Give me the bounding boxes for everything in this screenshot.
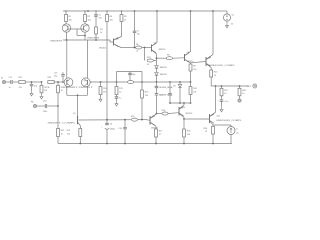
- ground below R22: [40, 94, 43, 99]
- resistor R14 to lower line: [141, 82, 149, 120]
- svg-text:47k: 47k: [44, 90, 47, 92]
- svg-text:Q4: Q4: [66, 80, 68, 82]
- wire Q11 emitter node: [213, 125, 231, 127]
- svg-text:Q5: Q5: [116, 39, 119, 41]
- wire input to left base: [62, 81, 64, 84]
- transistor Q2 mirror right: [81, 24, 89, 32]
- wire output rail: [211, 85, 248, 87]
- svg-text:C14: C14: [43, 101, 46, 103]
- svg-text:100u: 100u: [43, 111, 47, 113]
- svg-text:100: 100: [187, 134, 190, 136]
- svg-text:10p: 10p: [132, 74, 135, 76]
- transistor Q5: [99, 37, 122, 50]
- svg-text:0.1u: 0.1u: [225, 101, 229, 103]
- resistor R1: [65, 11, 73, 24]
- transistor Q1 mirror left: [62, 24, 70, 32]
- svg-text:Q3: Q3: [73, 113, 75, 115]
- svg-text:1m: 1m: [236, 133, 239, 135]
- svg-text:SILVER_MICA: SILVER_MICA: [159, 86, 173, 89]
- svg-text:100: 100: [193, 69, 196, 71]
- node input filter: [31, 81, 43, 83]
- wire Q8 collector up: [190, 11, 192, 52]
- capacitor C10 bottom: [118, 120, 126, 144]
- svg-text:Q2: Q2: [86, 25, 88, 27]
- svg-text:47p: 47p: [99, 18, 103, 20]
- svg-text:IN: IN: [1, 78, 3, 80]
- wire Q9 collector up: [212, 11, 214, 55]
- resistor R13 series feedback: [127, 81, 133, 84]
- wire lower chain down: [57, 106, 59, 129]
- svg-text:R19: R19: [131, 116, 134, 118]
- capacitor C11 input coupling: [9, 77, 19, 89]
- capacitor C9 Q9 emitter: [210, 68, 218, 78]
- wire Q6 emitter node: [156, 54, 158, 63]
- svg-text:R12: R12: [119, 88, 122, 90]
- svg-text:10k: 10k: [145, 95, 148, 97]
- resistor R20 Q3 emitter: [67, 129, 82, 144]
- svg-text:1N4148: 1N4148: [160, 74, 168, 76]
- capacitor C1 top: [94, 11, 103, 27]
- resistor R22 shunt: [40, 82, 47, 94]
- junction dots on V+ rail: [65, 10, 214, 12]
- transistor Q7: [150, 114, 158, 130]
- connector J1 input: [1, 78, 10, 84]
- ground below R11: [99, 97, 102, 102]
- wire Q9 emitter to output rail: [210, 77, 212, 86]
- svg-text:2N5401: 2N5401: [99, 48, 107, 50]
- capacitor C5 silver mica: [155, 82, 173, 94]
- wire Q3 emitter: [80, 126, 82, 129]
- svg-text:10: 10: [214, 75, 216, 77]
- svg-text:10k: 10k: [110, 20, 113, 22]
- svg-text:475: 475: [19, 87, 22, 89]
- capacitor C12 shunt: [30, 82, 37, 91]
- svg-text:Q7: Q7: [152, 116, 155, 118]
- resistor R26 Q11 emitter: [204, 126, 215, 143]
- svg-text:+: +: [217, 100, 218, 102]
- svg-text:Q6: Q6: [154, 43, 157, 45]
- svg-text:0.1u: 0.1u: [159, 95, 163, 97]
- capacitor C3 feedback: [115, 97, 122, 102]
- resistor R28 output series: [238, 86, 246, 99]
- svg-text:2N5210: 2N5210: [159, 49, 167, 51]
- svg-text:10p: 10p: [137, 34, 140, 36]
- svg-text:47: 47: [159, 134, 161, 136]
- capacitor C6 silver mica: [155, 94, 173, 115]
- svg-text:R27: R27: [224, 90, 227, 92]
- wire Q6 collector up: [156, 11, 158, 43]
- svg-text:Q4: Q4: [84, 80, 86, 82]
- svg-text:10k: 10k: [193, 91, 196, 93]
- svg-text:1000u: 1000u: [110, 129, 115, 131]
- svg-text:1k: 1k: [61, 90, 63, 92]
- svg-text:1k: 1k: [100, 32, 102, 34]
- svg-text:R16: R16: [162, 110, 165, 112]
- svg-text:10: 10: [224, 93, 226, 95]
- resistor R11 shunt: [99, 82, 107, 97]
- capacitor C13 above input node: [54, 72, 65, 82]
- resistor R2: [84, 11, 92, 24]
- capacitor C2 compensation: [133, 11, 140, 48]
- svg-text:C8: C8: [110, 124, 112, 126]
- transistor Q4B input pair right: [81, 78, 90, 87]
- svg-text:1u: 1u: [9, 87, 11, 89]
- svg-text:C7: C7: [137, 31, 139, 33]
- svg-text:MJE15032_COMPL: MJE15032_COMPL: [209, 65, 236, 67]
- resistor R15: [189, 82, 197, 103]
- svg-text:R3: R3: [100, 29, 103, 31]
- svg-text:2N5210: 2N5210: [186, 113, 193, 115]
- svg-text:2N5457 2N5457: 2N5457 2N5457: [64, 87, 95, 89]
- resistor R16 series: [157, 110, 180, 115]
- wire Q8 emitter to driver base: [191, 62, 207, 65]
- svg-text:Q1: Q1: [63, 25, 65, 27]
- svg-text:R8: R8: [167, 55, 169, 57]
- wire R8 to Q8 base: [173, 57, 185, 59]
- svg-text:220: 220: [67, 134, 70, 136]
- voltage source V1: [223, 11, 235, 26]
- svg-text:R11: R11: [103, 88, 106, 90]
- svg-text:10: 10: [242, 93, 244, 95]
- capacitor C8 electrolytic: [101, 120, 115, 144]
- svg-text:OUT: OUT: [247, 86, 252, 88]
- svg-text:Q9: Q9: [209, 57, 212, 59]
- label pair part numbers: [64, 87, 95, 89]
- svg-text:1k: 1k: [48, 87, 50, 89]
- svg-text:1u: 1u: [119, 98, 121, 100]
- svg-text:Q10: Q10: [181, 107, 185, 109]
- resistor R19 series bottom: [131, 116, 138, 121]
- svg-text:R6: R6: [136, 44, 138, 46]
- wire bypass loop: [117, 72, 143, 83]
- resistor R9 Q8 emitter: [189, 64, 196, 82]
- wire bottom ground rail: [58, 143, 232, 145]
- ground below C15: [220, 107, 223, 112]
- ground below V1: [226, 23, 229, 28]
- svg-text:R17: R17: [159, 131, 162, 133]
- svg-text:I1: I1: [236, 129, 238, 131]
- resistor R3: [95, 27, 104, 40]
- svg-text:C1: C1: [99, 15, 102, 17]
- wire Q2 collector down: [84, 36, 86, 41]
- capacitor C15 zobel: [217, 100, 228, 107]
- resistor R4 long feed: [106, 11, 113, 22]
- junction dots output rail: [215, 85, 241, 87]
- wire Q10 emitter to output base: [184, 118, 210, 120]
- diode D1: [155, 63, 168, 73]
- junction dots bottom rail: [79, 143, 214, 145]
- current source I1: [227, 127, 239, 144]
- wire mirror bases tie: [68, 29, 86, 36]
- svg-text:10: 10: [205, 131, 207, 133]
- wire to pair base: [62, 81, 64, 83]
- svg-text:MJE15033_COMPL: MJE15033_COMPL: [217, 120, 243, 122]
- svg-text:V1: V1: [232, 15, 235, 17]
- svg-text:+: +: [101, 127, 103, 129]
- svg-text:R24: R24: [61, 87, 64, 89]
- resistor R5: [120, 11, 127, 37]
- junction dots feedback line: [100, 81, 192, 83]
- resistor R18 Q10 emitter: [183, 119, 191, 144]
- transistor Q11 lower output: [210, 112, 243, 124]
- svg-text:R1: R1: [69, 16, 72, 18]
- wire Q10 emitter node: [183, 117, 185, 120]
- wire bias bus: [169, 102, 191, 104]
- svg-text:100: 100: [69, 20, 73, 22]
- svg-text:FB: FB: [31, 102, 34, 104]
- wire Q5 emitter to right: [121, 47, 135, 49]
- svg-text:2N5087S: 2N5087S: [50, 41, 63, 43]
- resistor R17 Q7 emitter: [155, 126, 163, 143]
- svg-text:RV1: RV1: [147, 57, 151, 59]
- ground below C12: [30, 91, 33, 96]
- svg-text:R28: R28: [242, 90, 245, 92]
- svg-text:R9: R9: [193, 66, 195, 68]
- resistor R6 series: [136, 44, 142, 53]
- junction dots bottom line: [106, 119, 143, 121]
- svg-text:10p: 10p: [54, 75, 57, 77]
- ground below C3: [115, 102, 118, 107]
- wire pair collectors up: [67, 40, 88, 78]
- resistor R8 series to VAS: [166, 55, 172, 60]
- transistor Q3 tail current source: [48, 113, 81, 126]
- transistor Q9 driver: [206, 55, 236, 68]
- capacitor C14 lower: [43, 101, 59, 113]
- capacitor C4 bypass: [128, 72, 135, 81]
- label OUT: [247, 84, 257, 88]
- svg-text:47p: 47p: [34, 86, 37, 88]
- svg-text:1k: 1k: [124, 20, 126, 22]
- wire bottom bias line: [79, 119, 150, 122]
- resistor R25 lower: [57, 129, 65, 144]
- svg-text:R2: R2: [88, 16, 91, 18]
- resistor R21 series input: [19, 77, 42, 89]
- svg-text:R23: R23: [48, 77, 51, 79]
- wire right base to feedback line: [90, 81, 92, 83]
- resistor R27 zobel: [220, 86, 228, 100]
- svg-text:2N5087S: 2N5087S: [87, 38, 100, 40]
- svg-text:Q8: Q8: [187, 52, 190, 54]
- wire Q10 collector to bias bus: [183, 103, 185, 105]
- transistor Q6: [152, 43, 167, 54]
- svg-text:1k: 1k: [119, 91, 121, 93]
- svg-text:R10: R10: [214, 72, 217, 74]
- wire emitter to R8: [157, 57, 167, 59]
- svg-text:15: 15: [231, 24, 234, 26]
- resistor R7 base-emitter loop: [145, 48, 157, 66]
- svg-text:R14: R14: [145, 92, 148, 94]
- svg-text:2N5087_COMPL: 2N5087_COMPL: [48, 123, 78, 125]
- svg-text:R21: R21: [19, 77, 22, 79]
- svg-text:R26: R26: [204, 128, 207, 130]
- transistor Q8 VAS: [185, 52, 194, 64]
- svg-text:100: 100: [88, 20, 92, 22]
- transistor Q10: [179, 105, 192, 117]
- connector J2 lower input: [31, 102, 45, 108]
- wire bus to Q5 base: [110, 40, 114, 42]
- svg-text:R20: R20: [67, 130, 70, 132]
- wire top V+ rail: [63, 10, 223, 12]
- resistor R23 series: [48, 77, 63, 89]
- svg-text:C10: C10: [118, 128, 121, 130]
- svg-text:2k: 2k: [147, 64, 149, 66]
- svg-text:R4: R4: [110, 16, 113, 18]
- diode D3: [173, 82, 182, 103]
- wire pair emitters tail: [67, 87, 88, 116]
- svg-text:R5: R5: [124, 16, 127, 18]
- svg-text:R25: R25: [61, 130, 64, 132]
- svg-text:R15: R15: [193, 88, 196, 90]
- svg-text:C13: C13: [54, 72, 57, 74]
- svg-text:R18: R18: [187, 131, 190, 133]
- wire Q1 collector down: [66, 32, 68, 40]
- node bus first stage collectors: [50, 38, 110, 43]
- diode D2: [155, 73, 168, 83]
- connector J3 aux out: [238, 99, 241, 102]
- svg-text:Q11: Q11: [217, 116, 220, 118]
- wire feedback node line: [90, 81, 190, 83]
- svg-text:C11: C11: [9, 77, 12, 79]
- svg-text:47k: 47k: [103, 91, 106, 93]
- svg-text:1N4148: 1N4148: [160, 67, 168, 69]
- wire base entry: [63, 81, 64, 83]
- transistor Q4A input pair left: [64, 78, 73, 87]
- svg-text:D3: D3: [173, 86, 175, 88]
- resistor R12 feedback shunt: [115, 82, 123, 97]
- capacitor C7 poly: [159, 82, 171, 103]
- wire long vertical feed: [106, 22, 108, 120]
- svg-text:1k: 1k: [136, 51, 138, 53]
- node Q6 base: [142, 47, 152, 49]
- wire lower output collector: [215, 86, 217, 112]
- svg-text:1k: 1k: [61, 134, 63, 136]
- resistor R24 to lower input: [57, 81, 64, 106]
